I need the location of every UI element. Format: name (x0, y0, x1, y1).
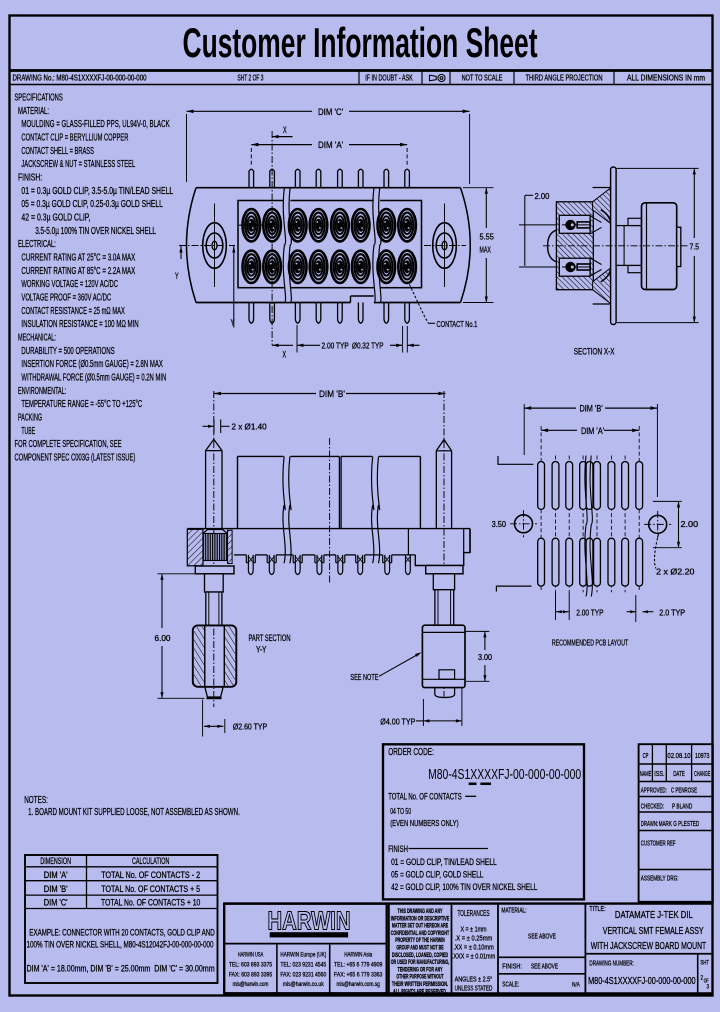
svg-text:HARWIN Europe (UK): HARWIN Europe (UK) (280, 952, 326, 959)
svg-text:CUSTOMER REF: CUSTOMER REF (641, 839, 676, 848)
svg-text:2.00: 2.00 (681, 519, 699, 529)
svg-text:FINISH: FINISH (388, 844, 408, 855)
svg-text:3.00: 3.00 (478, 652, 492, 662)
svg-text:FINISH:: FINISH: (18, 171, 42, 183)
svg-text:TEL: 023 9231 4545: TEL: 023 9231 4545 (280, 961, 326, 968)
svg-text:ISS.: ISS. (654, 769, 664, 778)
svg-text:2.00 TYP: 2.00 TYP (322, 341, 349, 351)
svg-text:DIM 'A' = 18.00mm, DIM 'B' = 2: DIM 'A' = 18.00mm, DIM 'B' = 25.00mm DIM… (27, 964, 215, 974)
svg-text:(EVEN NUMBERS ONLY): (EVEN NUMBERS ONLY) (390, 818, 459, 828)
svg-text:2 x Ø2.20: 2 x Ø2.20 (656, 567, 695, 577)
svg-text:SECTION X-X: SECTION X-X (574, 346, 615, 356)
svg-text:TUBE: TUBE (21, 425, 35, 437)
svg-text:WORKING VOLTAGE = 120V AC/DC: WORKING VOLTAGE = 120V AC/DC (21, 278, 118, 290)
svg-text:mis@harwin.com: mis@harwin.com (233, 981, 269, 988)
svg-text:X: X (283, 125, 287, 135)
svg-text:mis@harwin.co.uk: mis@harwin.co.uk (283, 981, 324, 988)
svg-text:Customer Information Sheet: Customer Information Sheet (183, 19, 538, 66)
svg-text:CONFIDENTIAL AND COPYRIGHT: CONFIDENTIAL AND COPYRIGHT (391, 930, 450, 937)
svg-text:JACKSCREW & NUT = STAINLESS ST: JACKSCREW & NUT = STAINLESS STEEL (21, 158, 135, 170)
svg-text:7.5: 7.5 (690, 242, 700, 252)
svg-text:HARWIN Asia: HARWIN Asia (344, 952, 372, 959)
svg-text:VOLTAGE PROOF = 360V AC/DC: VOLTAGE PROOF = 360V AC/DC (21, 291, 111, 303)
svg-text:M80-4S1XXXXFJ-00-000-00-000: M80-4S1XXXXFJ-00-000-00-000 (588, 975, 696, 987)
svg-text:MARK G PLESTED: MARK G PLESTED (659, 819, 700, 828)
svg-text:42 = GOLD CLIP, 100% TIN OVER: 42 = GOLD CLIP, 100% TIN OVER NICKEL SHE… (391, 882, 537, 892)
svg-text:CURRENT RATING AT 85°C = 2.2A: CURRENT RATING AT 85°C = 2.2A MAX (21, 265, 135, 277)
svg-text:01 = 0.3µ GOLD CLIP, 3.5-5.0µ: 01 = 0.3µ GOLD CLIP, 3.5-5.0µ TIN/LEAD S… (21, 185, 173, 197)
svg-text:DRAWING NUMBER:: DRAWING NUMBER: (589, 958, 633, 967)
svg-text:Ø2.60 TYP: Ø2.60 TYP (233, 722, 267, 732)
svg-text:HARWIN USA: HARWIN USA (238, 952, 264, 959)
svg-text:100% TIN OVER NICKEL SHELL, M8: 100% TIN OVER NICKEL SHELL, M80-4S12042F… (27, 940, 214, 950)
svg-text:PART SECTION: PART SECTION (249, 633, 291, 643)
svg-text:IF IN DOUBT - ASK: IF IN DOUBT - ASK (365, 74, 413, 83)
svg-text:01 = GOLD CLIP, TIN/LEAD SHELL: 01 = GOLD CLIP, TIN/LEAD SHELL (391, 857, 497, 867)
svg-text:OR USED FOR MANUFACTURING,: OR USED FOR MANUFACTURING, (391, 959, 450, 966)
svg-text:3: 3 (707, 984, 710, 991)
svg-text:DIMENSION: DIMENSION (40, 856, 71, 866)
svg-text:TOLERANCES: TOLERANCES (458, 908, 490, 918)
svg-text:RECOMMENDED PCB LAYOUT: RECOMMENDED PCB LAYOUT (552, 638, 628, 648)
svg-text:.XX = ± 0.10mm: .XX = ± 0.10mm (453, 943, 494, 952)
svg-text:TOTAL No. OF CONTACTS - 2: TOTAL No. OF CONTACTS - 2 (101, 870, 200, 880)
svg-text:MATTER SET OUT HEREON ARE: MATTER SET OUT HEREON ARE (392, 923, 448, 930)
svg-text:TOTAL No. OF CONTACTS: TOTAL No. OF CONTACTS (388, 792, 462, 803)
svg-text:SPECIFICATIONS: SPECIFICATIONS (15, 92, 63, 104)
svg-text:PACKING: PACKING (18, 411, 42, 423)
svg-text:CHECKED:: CHECKED: (641, 802, 664, 811)
svg-text:DIM 'B': DIM 'B' (319, 389, 345, 400)
svg-text:DIM 'C': DIM 'C' (44, 898, 68, 908)
svg-text:X: X (283, 350, 287, 360)
svg-text:APPROVED:: APPROVED: (641, 786, 667, 795)
svg-text:FAX: +65 6 779 3363: FAX: +65 6 779 3363 (334, 971, 383, 978)
svg-text:DIM 'A': DIM 'A' (581, 426, 604, 436)
svg-text:TEL: +65 6 779 4909: TEL: +65 6 779 4909 (334, 961, 383, 968)
svg-text:FAX: 023 9231 4560: FAX: 023 9231 4560 (280, 971, 326, 978)
svg-text:THEIR WRITTEN PERMISSION.: THEIR WRITTEN PERMISSION. (392, 981, 448, 988)
svg-text:THIRD ANGLE PROJECTION: THIRD ANGLE PROJECTION (526, 74, 603, 83)
svg-text:05 = 0.3µ GOLD CLIP, 0.25-0.3µ: 05 = 0.3µ GOLD CLIP, 0.25-0.3µ GOLD SHEL… (21, 198, 163, 210)
svg-text:02.08.10: 02.08.10 (667, 751, 690, 760)
svg-text:DATAMATE J-TEK DIL: DATAMATE J-TEK DIL (615, 910, 693, 921)
svg-text:FOR COMPLETE SPECIFICATION, SE: FOR COMPLETE SPECIFICATION, SEE (15, 438, 122, 450)
svg-text:DIM 'B': DIM 'B' (580, 404, 603, 414)
svg-text:PROPERTY OF THE HARWIN: PROPERTY OF THE HARWIN (395, 937, 445, 944)
svg-text:N/A: N/A (572, 982, 580, 989)
svg-text:DISCLOSED, LOANED, COPIED: DISCLOSED, LOANED, COPIED (392, 952, 449, 959)
svg-text:MAX: MAX (480, 245, 492, 255)
svg-text:X = ± 1mm: X = ± 1mm (460, 925, 486, 934)
svg-text:CP: CP (643, 751, 649, 760)
svg-text:2.00 TYP: 2.00 TYP (576, 607, 603, 617)
svg-text:VERTICAL SMT FEMALE ASSY: VERTICAL SMT FEMALE ASSY (603, 926, 704, 937)
svg-text:SEE ABOVE: SEE ABOVE (531, 961, 558, 970)
svg-text:CONTACT RESISTANCE = 25 mΩ MAX: CONTACT RESISTANCE = 25 mΩ MAX (21, 305, 125, 317)
svg-text:.X = ± 0.25mm: .X = ± 0.25mm (455, 934, 493, 943)
svg-text:Y: Y (231, 318, 235, 328)
svg-text:FINISH:: FINISH: (502, 961, 522, 970)
svg-text:ALL RIGHTS ARE RESERVED.: ALL RIGHTS ARE RESERVED. (393, 988, 447, 995)
svg-text:TOTAL No. OF CONTACTS + 5: TOTAL No. OF CONTACTS + 5 (101, 884, 200, 894)
svg-text:SEE ABOVE: SEE ABOVE (528, 932, 556, 941)
svg-text:NOT TO SCALE: NOT TO SCALE (462, 74, 503, 83)
svg-text:3.50: 3.50 (492, 519, 507, 529)
svg-text:FAX: 603 893 3395: FAX: 603 893 3395 (229, 971, 273, 978)
svg-text:DATE: DATE (673, 769, 685, 778)
svg-text:ENVIRONMENTAL:: ENVIRONMENTAL: (18, 385, 66, 397)
svg-text:SEE NOTE: SEE NOTE (350, 672, 378, 682)
svg-text:TEL: 603 893 3375: TEL: 603 893 3375 (229, 961, 273, 968)
svg-text:HARWIN: HARWIN (268, 906, 351, 936)
svg-text:NAME: NAME (640, 769, 652, 778)
svg-text:CALCULATION: CALCULATION (132, 856, 169, 866)
svg-text:DIM 'A': DIM 'A' (44, 870, 68, 880)
svg-text:INSERTION FORCE (Ø0.5mm GAUGE): INSERTION FORCE (Ø0.5mm GAUGE) = 2.8N MA… (21, 358, 163, 370)
svg-text:THIS DRAWING AND ANY: THIS DRAWING AND ANY (398, 908, 444, 915)
svg-text:OTHER PURPOSE WITHOUT: OTHER PURPOSE WITHOUT (396, 974, 443, 981)
svg-text:M80-4S1XXXXFJ-00-000-00-000: M80-4S1XXXXFJ-00-000-00-000 (428, 767, 581, 783)
svg-text:CHANGE: CHANGE (694, 769, 710, 778)
svg-text:INFORMATION OR DESCRIPTIVE: INFORMATION OR DESCRIPTIVE (391, 915, 450, 922)
svg-text:NOTES:: NOTES: (24, 794, 48, 806)
svg-text:1. BOARD MOUNT KIT SUPPLIED LO: 1. BOARD MOUNT KIT SUPPLIED LOOSE, NOT A… (28, 807, 240, 818)
svg-text:3.5-5.0µ 100% TIN OVER NICKEL: 3.5-5.0µ 100% TIN OVER NICKEL SHELL (35, 225, 156, 237)
svg-text:DIM 'C': DIM 'C' (318, 107, 343, 118)
svg-text:DRAWN:: DRAWN: (641, 819, 658, 828)
svg-text:CONTACT No.1: CONTACT No.1 (437, 319, 478, 329)
svg-text:DRAWING No.: M80-4S1XXXXFJ-00-: DRAWING No.: M80-4S1XXXXFJ-00-000-00-000 (13, 74, 148, 83)
svg-text:P BLAND: P BLAND (672, 802, 693, 811)
svg-text:42 = 0.3µ GOLD CLIP,: 42 = 0.3µ GOLD CLIP, (21, 211, 90, 223)
svg-text:CONTACT CLIP = BERYLLIUM COPPE: CONTACT CLIP = BERYLLIUM COPPER (21, 131, 128, 143)
svg-text:04 TO 50: 04 TO 50 (390, 807, 411, 816)
svg-text:5.55: 5.55 (480, 232, 495, 242)
svg-text:MOULDING = GLASS-FILLED PPS, U: MOULDING = GLASS-FILLED PPS, UL94V-0, BL… (21, 118, 169, 130)
svg-text:EXAMPLE: CONNECTOR WITH 20 CON: EXAMPLE: CONNECTOR WITH 20 CONTACTS, GOL… (29, 927, 215, 937)
svg-text:WITHDRAWAL FORCE (Ø0.5mm GAUGE: WITHDRAWAL FORCE (Ø0.5mm GAUGE) = 0.2N M… (21, 371, 166, 383)
svg-text:C PENROSE: C PENROSE (671, 786, 697, 795)
svg-text:CURRENT RATING AT 25°C = 3.0A: CURRENT RATING AT 25°C = 3.0A MAX (21, 251, 135, 263)
svg-text:WITH JACKSCREW BOARD MOUNT: WITH JACKSCREW BOARD MOUNT (591, 941, 706, 952)
svg-text:ANGLES ± 2.5°: ANGLES ± 2.5° (455, 975, 493, 984)
svg-text:TENDERING OR FOR ANY: TENDERING OR FOR ANY (398, 966, 444, 973)
svg-text:6.00: 6.00 (155, 633, 171, 643)
svg-text:MATERIAL:: MATERIAL: (18, 105, 49, 117)
svg-text:SHT 2 OF 3: SHT 2 OF 3 (238, 74, 264, 83)
svg-text:TITLE:: TITLE: (589, 904, 605, 913)
svg-text:COMPONENT SPEC C003G (LATEST I: COMPONENT SPEC C003G (LATEST ISSUE) (15, 451, 136, 463)
svg-text:INSULATION RESISTANCE = 100 MΩ: INSULATION RESISTANCE = 100 MΩ MIN (21, 318, 138, 330)
svg-text:MECHANICAL:: MECHANICAL: (18, 331, 56, 343)
svg-text:10973: 10973 (695, 751, 710, 760)
svg-text:2 x Ø1.40: 2 x Ø1.40 (232, 422, 267, 432)
svg-text:ALL DIMENSIONS IN mm: ALL DIMENSIONS IN mm (627, 74, 705, 83)
svg-text:SCALE:: SCALE: (502, 980, 519, 989)
svg-text:SHT: SHT (700, 959, 709, 966)
svg-text:CONTACT SHELL = BRASS: CONTACT SHELL = BRASS (21, 145, 94, 157)
svg-text:ASSEMBLY DRG:: ASSEMBLY DRG: (641, 874, 679, 883)
svg-text:05 = GOLD CLIP, GOLD SHELL: 05 = GOLD CLIP, GOLD SHELL (391, 869, 483, 879)
svg-text:2.0 TYP: 2.0 TYP (659, 607, 685, 617)
svg-text:TOTAL No. OF CONTACTS + 10: TOTAL No. OF CONTACTS + 10 (101, 898, 200, 908)
svg-text:UNLESS STATED: UNLESS STATED (455, 984, 493, 993)
svg-text:2.00: 2.00 (535, 191, 550, 201)
svg-text:Ø4.00 TYP: Ø4.00 TYP (380, 716, 415, 726)
svg-text:.XXX = ± 0.01mm: .XXX = ± 0.01mm (452, 952, 496, 961)
svg-text:mis@harwin.com.sg: mis@harwin.com.sg (337, 981, 381, 988)
svg-text:MATERIAL:: MATERIAL: (501, 906, 526, 915)
svg-text:DIM 'B': DIM 'B' (44, 884, 68, 894)
svg-text:Ø0.32 TYP: Ø0.32 TYP (352, 341, 384, 351)
svg-text:TEMPERATURE RANGE = -55°C TO +: TEMPERATURE RANGE = -55°C TO +125°C (21, 398, 142, 410)
svg-text:DURABILITY = 500 OPERATIONS: DURABILITY = 500 OPERATIONS (21, 345, 114, 357)
svg-text:Y: Y (175, 271, 179, 281)
svg-text:GROUP AND MUST NOT BE: GROUP AND MUST NOT BE (396, 945, 443, 952)
svg-text:ORDER CODE:: ORDER CODE: (388, 747, 434, 758)
svg-text:DIM 'A': DIM 'A' (318, 140, 343, 151)
svg-text:Y-Y: Y-Y (256, 645, 267, 655)
svg-text:ELECTRICAL:: ELECTRICAL: (18, 238, 56, 250)
